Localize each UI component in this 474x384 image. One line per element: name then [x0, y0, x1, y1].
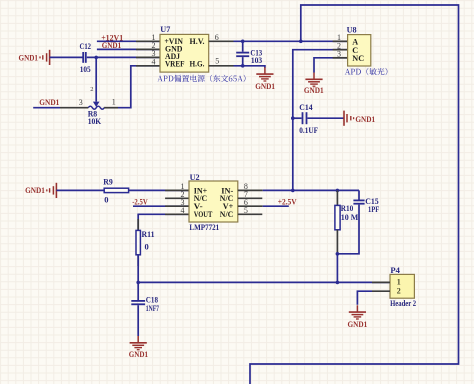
svg-text:GND1: GND1 — [19, 53, 39, 63]
svg-text:LMP7721: LMP7721 — [189, 222, 219, 232]
junction C13 top — [241, 40, 245, 44]
svg-text:Header 2: Header 2 — [390, 298, 416, 308]
wire U8 pin3 to ground — [314, 58, 348, 73]
svg-text:GND1: GND1 — [355, 114, 375, 124]
pin1 stub of R8 — [104, 107, 118, 109]
svg-text:1: 1 — [397, 278, 401, 287]
svg-text:GND1: GND1 — [255, 81, 275, 91]
wire U2 pin4 VOUT down through R11 — [138, 214, 189, 230]
op-amp U2 body — [189, 181, 238, 222]
wire C15 bottom — [337, 205, 359, 254]
svg-text:GND1: GND1 — [348, 319, 368, 329]
wire C14 right to GND1 — [308, 117, 345, 119]
wire GND1 to R8 — [33, 107, 60, 109]
svg-text:2: 2 — [90, 86, 93, 93]
earth ground below P4 — [349, 305, 366, 319]
resistor R11 — [137, 219, 139, 230]
pin 6 of U2 — [238, 205, 263, 207]
svg-text:0: 0 — [145, 241, 149, 251]
junction R10 branch at output wire — [336, 281, 340, 285]
wire GND1 to R9 — [56, 189, 104, 191]
junction C14 — [291, 116, 295, 120]
svg-text:4: 4 — [152, 58, 156, 67]
resistor R9 — [104, 188, 128, 192]
pin 6 of U7 — [209, 40, 234, 42]
wire C12 to U7 pin3 ADJ — [87, 56, 160, 58]
photodiode U8 body — [348, 35, 371, 66]
pin 4 of U7 — [136, 65, 160, 67]
svg-text:GND1: GND1 — [102, 40, 122, 50]
svg-text:3: 3 — [337, 50, 341, 59]
wire R10 branch down to output node — [336, 254, 338, 283]
capacitor C14 — [303, 112, 307, 124]
pin 1 of U7 — [136, 40, 160, 42]
wire R8 wiper — [95, 57, 97, 101]
wire U8 pin2 — [293, 50, 348, 119]
svg-text:P4: P4 — [390, 265, 400, 275]
svg-text:R9: R9 — [103, 176, 113, 186]
svg-text:GND1: GND1 — [304, 85, 324, 95]
svg-text:10 M: 10 M — [341, 212, 359, 222]
wire U7 pin6 to U8 pin1 — [234, 40, 348, 42]
svg-text:1PF: 1PF — [368, 204, 379, 214]
svg-text:0: 0 — [104, 195, 108, 205]
svg-text:C14: C14 — [299, 102, 313, 112]
svg-text:H.G.: H.G. — [190, 60, 205, 69]
svg-text:GND1: GND1 — [129, 349, 148, 359]
pin 7 of U2 — [238, 197, 262, 199]
svg-text:0.1UF: 0.1UF — [299, 125, 318, 135]
svg-text:1NF7: 1NF7 — [146, 303, 160, 313]
wire C14 left — [293, 117, 302, 119]
wire -2.5V to U2 pin3 — [133, 205, 189, 207]
svg-text:VOUT: VOUT — [194, 210, 213, 219]
voltage regulator U7 body — [160, 34, 209, 72]
capacitor C15 — [353, 200, 364, 203]
header P4 body — [390, 274, 414, 298]
svg-text:NC: NC — [352, 54, 364, 63]
svg-text:2: 2 — [397, 287, 401, 296]
svg-text:10K: 10K — [88, 116, 102, 126]
svg-text:1: 1 — [112, 98, 116, 107]
svg-text:U8: U8 — [347, 25, 357, 35]
guard loop wire top — [250, 5, 459, 384]
svg-text:105: 105 — [80, 64, 91, 74]
capacitor C18 — [131, 301, 145, 304]
capacitor C13 — [236, 53, 249, 57]
pin 5 of U2 — [238, 213, 262, 215]
comment APD bias supply chinese — [157, 75, 245, 82]
junction node C12/R8 wiper — [94, 56, 98, 60]
wire U2 pin8 to R10/C15 — [263, 189, 359, 191]
wire C15 top — [358, 190, 360, 199]
svg-text:5: 5 — [215, 57, 219, 66]
wire output node to P4 — [138, 281, 390, 283]
pin 2 of U7 — [136, 48, 160, 50]
wire GND1 to C12 — [50, 56, 83, 58]
svg-text:R11: R11 — [142, 229, 155, 239]
svg-text:U7: U7 — [160, 24, 171, 34]
svg-text:-2.5V: -2.5V — [132, 196, 148, 206]
pin 3 of U7 — [136, 56, 160, 58]
svg-text:GND1: GND1 — [25, 185, 45, 195]
junction R10/C15 bottom — [336, 252, 340, 256]
svg-text:3: 3 — [79, 98, 83, 107]
svg-text:C12: C12 — [80, 41, 92, 51]
wire P4 pin2 to ground — [357, 291, 372, 305]
svg-text:U2: U2 — [190, 172, 200, 182]
pin top of R10 — [336, 190, 338, 205]
pin 5 of U7 — [209, 65, 234, 67]
wire C14 branch down — [292, 118, 294, 190]
potentiometer R8 — [93, 102, 100, 107]
junction R11/C18/output node — [136, 281, 140, 285]
svg-text:103: 103 — [251, 55, 262, 65]
junction U2 pin8 / C14 branch — [291, 189, 295, 193]
pin 2 of P4 — [372, 290, 390, 292]
power ground GND1 right of C14 — [344, 111, 354, 126]
power ground GND1 left of R9 — [47, 183, 57, 198]
pin3 stub of R8 — [60, 107, 88, 109]
pin 2 of U2 — [165, 197, 189, 199]
wire R9 to U2 pin1 — [129, 189, 189, 191]
comment APD photodiode chinese — [345, 68, 388, 75]
svg-text:GND1: GND1 — [39, 97, 59, 107]
wire R11 to C18 junction — [137, 255, 139, 283]
wire U7 pin2 GND1 — [97, 48, 160, 50]
pin 2 of U8 — [333, 49, 348, 51]
svg-text:H.V.: H.V. — [190, 37, 205, 46]
wire +2.5V — [263, 205, 289, 207]
pin bottom of R10 — [336, 230, 338, 254]
pin 1 of U2 — [165, 189, 189, 191]
wire R8 to U7 pin4 VREF — [118, 66, 160, 108]
wire U7 pin1 +12V1 — [97, 40, 160, 42]
earth ground below U8 pin3 — [305, 73, 322, 87]
pin 3 of U8 — [333, 57, 348, 59]
pin 1 of U8 — [333, 40, 348, 42]
pin 8 of U2 — [238, 189, 263, 191]
svg-text:VREF: VREF — [165, 60, 185, 69]
junction R10 top — [336, 189, 340, 193]
power ground GND1 left of C12 — [40, 50, 50, 65]
svg-text:N/C: N/C — [220, 210, 234, 219]
junction U8 pin1 / loop wire — [299, 40, 303, 44]
pin 1 of P4 — [372, 281, 390, 283]
pin 4 of U2 — [165, 213, 189, 215]
svg-text:+2.5V: +2.5V — [278, 197, 298, 207]
pin 3 of U2 — [165, 205, 189, 207]
capacitor C12 — [83, 52, 86, 63]
resistor R10 — [335, 205, 340, 229]
svg-text:4: 4 — [181, 206, 185, 215]
junction C13 bottom — [241, 64, 245, 68]
earth ground below C13 — [256, 67, 273, 81]
earth ground below C18 — [130, 336, 147, 350]
wire U7 pin5 to ground — [234, 66, 265, 68]
